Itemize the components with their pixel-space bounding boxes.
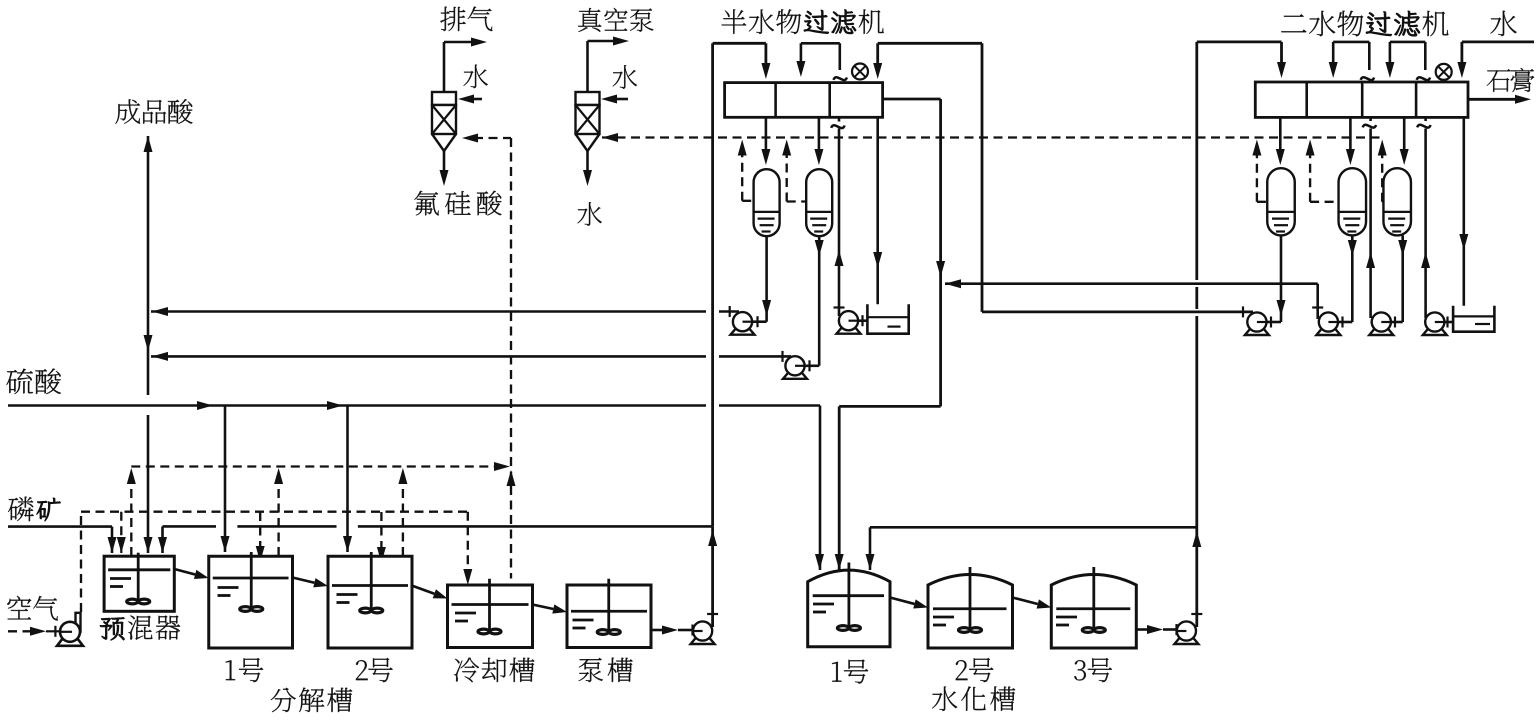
flexible hose mark over cell 2 [833,75,847,82]
wire: dihydrate-filtrate wash line into filter cell 3 [876,43,879,66]
wire: gypsum discharge arrow [1468,98,1518,101]
label 水 (water out) [577,202,601,226]
label 硫酸 (sulfuric acid) [6,369,32,394]
wire: pump P7 suction from seal tank [1444,321,1453,324]
wire: sulfuric branch down into decomposition tank 1 [224,406,227,553]
label 分解槽 (decomposition tanks) [271,688,296,712]
hydration slurry pump (to dihydrate filter) [1174,638,1198,644]
pump P1 (return acid) [731,329,755,335]
wire: filtrate return line 1 from pump P1 to product-acid line [151,310,706,313]
wire: hydration pump riser to dihydrate filter [1195,316,1198,627]
label 水 (water in) [613,65,637,89]
wire: filter cell 1 drain to receiver 1 [765,117,768,152]
vacuum receiver V3 [1267,168,1295,235]
wire: hydration tank1 overflow to tank2 [890,598,914,604]
label 1号 [226,660,235,680]
pump P4 (wash filtrate to hemihydrate filter) [1245,329,1269,335]
dihydrate filter pan (4 cells) [1255,82,1468,117]
wire: sulfuric header end drop into hydration tank 1 [819,406,822,571]
wire: tank2 overflow arrow to cooling tank [413,586,434,594]
label 预混器 [100,617,125,640]
pump P2 (cloth wash) [837,328,861,334]
wire: pump P7 wash riser with hose mark [1424,129,1427,319]
wire: tank2 vent dashed [402,480,404,556]
wire: receiver V5 drain to pump P6 [1401,235,1404,322]
wire: cloth-wash loop over dihydrate cell 2 [1332,42,1335,64]
wire: receiver V2 drain down to pump P3 [818,236,821,366]
wire: receiver V1 vacuum tap dashed [742,200,753,202]
wire: receiver V5 vacuum tap dashed [1382,201,1383,203]
wire: tank1 overflow arrow to tank 2 [293,578,315,583]
wire: vapour dashed header y=466.5 to scrubber downcomer [131,465,497,467]
label 3号 [1074,660,1086,680]
scrubber column 2 vent line [586,41,589,92]
wire: hemihydrate cake discharge line [883,98,941,101]
instrument on cell-3 wash line [852,64,868,80]
label 泵槽 [579,658,603,682]
wire: dihydrate filtrate return to hydration feed [945,279,961,288]
label 成品酸 (product acid) [115,99,140,124]
pump P6 (cloth wash cell 2) [1369,329,1393,335]
pump P3 (return acid) [783,373,807,379]
wire: cloth wash pump riser with hose mark [838,129,841,317]
wire: hydration tank2 overflow to tank3 [1013,598,1038,605]
label 2号 [356,660,368,680]
wire: hydration tank3 outlet to pump [1136,628,1150,631]
wire: dashed air branch into premixer [120,512,122,540]
wire: premixer vent dashed [130,480,132,556]
hydration tank 1 [808,570,890,647]
wire: receiver V2 vacuum tap dashed [787,200,806,202]
wire: filter cell 2 drain to receiver 2 [818,117,821,152]
wire: sulfuric acid main header y=405.5 [8,404,706,407]
filtrate seal tank (open) [867,304,908,334]
premixer tank 预混器 [104,556,174,611]
wire: fresh water feed into dihydrate cell 4 [1461,42,1464,64]
label 石膏 (gypsum) [1487,69,1511,92]
instrument on water feed [1436,64,1452,80]
wire: filter cell 3 drain to seal tank [876,117,879,327]
wire: sulfuric branch down into decomposition tank 2 [346,406,349,553]
wire: pump P2 suction from seal tank [858,319,867,322]
decomposition tank 1 [209,556,293,648]
pump P5 (filtrate to hydration) [1316,329,1340,335]
label 磷矿 (phosphate rock) [8,497,34,522]
wire: cloth-wash loop over filter cell 2 [800,43,803,64]
wire: water inlet to scrubber 1 [470,98,482,101]
scrubber column 2 (vacuum-pump seal water scrubber) [576,92,600,105]
dihydrate filtrate seal tank (open) [1453,306,1494,332]
wire: dashed air drop into cooling tank [467,512,469,572]
label 空气 (air) [7,596,31,620]
air blower [57,639,83,646]
wire: pump tank outlet to slurry pump [651,629,664,632]
label 冷却槽 [454,658,479,683]
wire: pump P5 discharge riser [1316,284,1319,319]
wire: premixer overflow arrow to tank 1 [174,569,195,574]
wire: receiver V1 drain to pump P1 [765,236,768,322]
hydration tank 2 [928,575,1013,648]
scrubber column 1 (fluosilicic acid absorber) [432,92,456,105]
vacuum receiver V1 [754,169,780,236]
wire: scrubber1 dashed downcomer to cooling tank [510,138,512,579]
wire: product-acid / sulfuric shared vertical line x=148 [147,136,150,395]
wire: slurry riser from pump tank to filter cell 1 [711,43,714,526]
wire: pump P6 wash riser with hose mark [1369,129,1372,319]
label 半水物过滤机 (hemihydrate filter) [722,9,747,34]
wire: dihydrate cell 2 drain [1349,117,1352,152]
wire: tank1 vent dashed [277,480,279,556]
wire: dashed gas inlet to scrubber 1 [474,137,511,139]
label 二水物过滤机 (dihydrate filter) [1281,14,1306,32]
wire: main vacuum dashed header to scrubber 2 [602,133,618,142]
label 氟硅酸 (fluosilicic acid) [414,191,439,216]
wire: cooling tank overflow arrow to pump tank [533,605,554,610]
wire: receiver V4 vacuum tap dashed [1310,201,1338,203]
slurry pump (to hemihydrate filter) [691,638,715,644]
wire: air dashed riser and header y=511.7 [80,512,82,612]
wire: phosphate rock feed line into premixer [8,525,112,528]
wire: recycle line from slurry pump back to premixer [163,525,217,528]
decomposition tank 2 [328,556,412,648]
wire: receiver V3 drain to pump P4 [1280,235,1283,322]
wire: receiver V3 vacuum tap dashed [1257,201,1267,203]
wire: dashed air branch into decomposition tank 2 [380,512,382,549]
label 真空泵 (vacuum pump) [578,8,601,32]
label 水 (water) [463,65,487,89]
wire: water inlet to scrubber 2 [613,98,628,101]
wire: receiver V4 drain to pump P5 [1351,235,1354,322]
cooling tank 冷却槽 [448,585,533,648]
label 水 (wash water) [1490,11,1516,36]
wire: filtrate return line 2 from pump P3 to product-acid line [151,355,706,358]
label 2号 [956,660,968,680]
pump P7 (cloth wash cell 3) [1423,329,1447,335]
hemihydrate filter pan (3 cells) [725,83,883,118]
label 排气 (vent gas) [440,7,465,31]
vacuum receiver V5 [1383,168,1411,235]
wire: dashed air branch into decomposition tank 1 [259,512,261,548]
hydration tank 3 [1051,575,1136,648]
vacuum receiver V4 [1339,168,1367,235]
wire: dihydrate cell 3 drain [1403,117,1406,152]
wire: cloth-wash loop over dihydrate cell 3 [1389,42,1392,64]
label 1号 [832,662,841,682]
vacuum receiver V2 [806,169,832,236]
label 水化槽 (hydration tanks) [932,686,957,710]
wire: recycle branch into hydration tank 1 [870,526,1197,529]
scrubber column 1 vent line [443,42,446,92]
wire: dihydrate cell 1 drain [1279,117,1282,152]
pump tank 泵槽 [567,585,651,648]
wire: air feed dashed line to blower [8,630,33,632]
wire: dihydrate cell 4 drain to seal tank [1463,117,1466,316]
